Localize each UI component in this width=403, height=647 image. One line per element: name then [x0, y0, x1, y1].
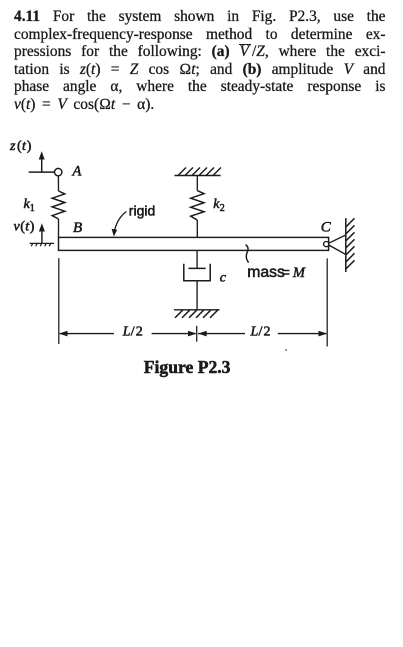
leader squiggle for mass label — [246, 245, 249, 263]
label k1 — [24, 197, 35, 214]
ceiling support for k2 — [175, 168, 222, 176]
wire circle to spring k1 — [57, 176, 59, 191]
wire spring k1 to bar — [58, 219, 60, 238]
svg-text:2: 2 — [220, 203, 225, 214]
label L/2 right — [250, 325, 271, 340]
stray dot — [285, 349, 287, 351]
svg-text:1: 1 — [30, 203, 35, 214]
svg-text:z: z — [9, 139, 16, 154]
extension line right — [326, 258, 328, 346]
svg-text:2: 2 — [136, 325, 143, 340]
damper c — [184, 264, 210, 281]
spring k2 — [191, 191, 204, 221]
label mass = M — [247, 264, 306, 281]
svg-text:c: c — [220, 271, 227, 286]
svg-text:/: / — [131, 325, 135, 340]
svg-text:=: = — [282, 264, 290, 280]
wire bar to damper piston — [196, 251, 198, 269]
arrow z(t) input — [29, 151, 55, 172]
pin triangle to wall — [329, 235, 346, 255]
svg-text:A: A — [72, 164, 82, 180]
spring k1 — [52, 191, 65, 219]
wire ceiling to spring k2 — [196, 176, 198, 191]
dimension line left L/2 — [59, 331, 197, 337]
svg-text:mass: mass — [247, 264, 285, 281]
reference datum line for v(t) — [30, 243, 54, 246]
svg-text:/: / — [259, 325, 263, 340]
arrow v(t) response — [39, 223, 45, 243]
svg-text:B: B — [73, 220, 82, 236]
svg-text:): ) — [27, 139, 32, 154]
pin circle at C — [324, 242, 329, 247]
svg-text:L: L — [122, 325, 131, 340]
dimension line right L/2 — [198, 331, 327, 337]
rigid bar B to C — [59, 237, 329, 250]
extension line center — [196, 326, 198, 342]
ground under damper — [174, 310, 220, 318]
wire spring k2 to bar — [196, 220, 198, 237]
label k2 — [213, 197, 225, 214]
label v(t) — [14, 220, 35, 235]
svg-text:2: 2 — [264, 325, 271, 340]
svg-text:rigid: rigid — [129, 203, 155, 219]
node A circle — [55, 168, 62, 175]
svg-text:L: L — [250, 325, 259, 340]
svg-text:M: M — [292, 265, 306, 281]
extension line left — [58, 258, 60, 344]
label L/2 left — [122, 325, 143, 340]
wire damper to ground — [196, 281, 198, 310]
svg-text:Figure P2.3: Figure P2.3 — [144, 357, 231, 377]
svg-text:): ) — [30, 220, 35, 235]
arrow rigid pointer — [112, 212, 127, 237]
svg-text:C: C — [321, 220, 332, 236]
wall at C — [346, 218, 355, 272]
label z(t) — [9, 139, 32, 154]
